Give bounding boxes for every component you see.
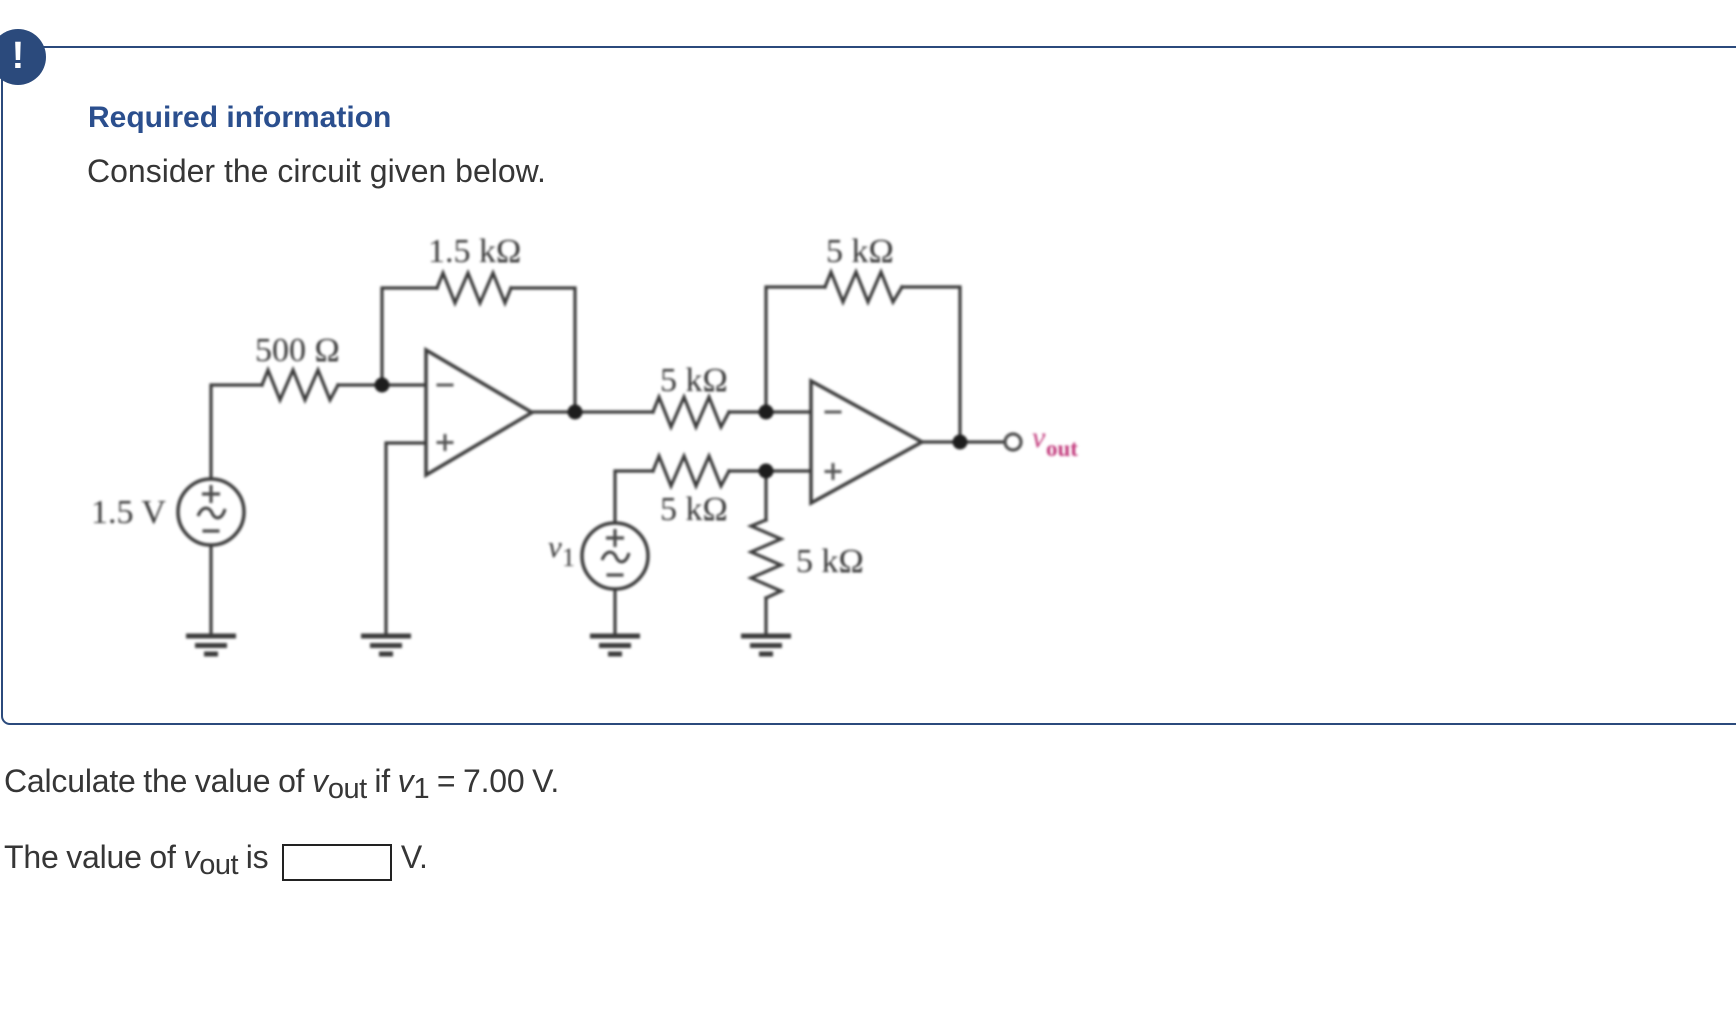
svg-text:5 kΩ: 5 kΩ bbox=[660, 491, 728, 528]
svg-text:1.5 V: 1.5 V bbox=[91, 494, 166, 531]
svg-text:1.5 kΩ: 1.5 kΩ bbox=[428, 233, 521, 270]
svg-text:out: out bbox=[1046, 436, 1078, 461]
svg-text:5 kΩ: 5 kΩ bbox=[826, 233, 894, 270]
svg-text:5 kΩ: 5 kΩ bbox=[796, 543, 864, 580]
svg-text:1: 1 bbox=[562, 543, 575, 572]
svg-text:500 Ω: 500 Ω bbox=[255, 332, 340, 369]
svg-text:5 kΩ: 5 kΩ bbox=[660, 362, 728, 399]
svg-text:v: v bbox=[1032, 421, 1046, 454]
svg-text:v: v bbox=[548, 529, 562, 564]
